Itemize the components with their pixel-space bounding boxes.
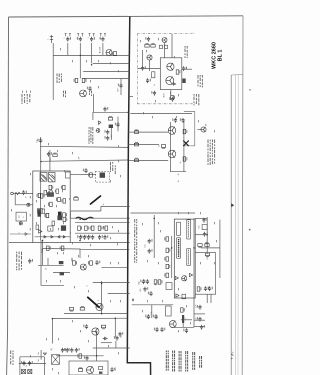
margin rule line 1 xyxy=(230,75,232,375)
resistor xyxy=(82,78,86,82)
svg-text:5: 5 xyxy=(87,285,89,286)
resistor CC2 xyxy=(88,261,92,265)
text block QQ legend xyxy=(166,351,202,372)
preamp block box xyxy=(33,171,70,243)
svg-text:5: 5 xyxy=(77,38,79,39)
capacitor top row xyxy=(66,37,71,42)
wire xyxy=(110,128,112,140)
transistor T6 xyxy=(168,150,176,158)
wire xyxy=(70,217,129,219)
wire xyxy=(51,319,53,344)
resistor W15 xyxy=(45,213,49,217)
capacitor WW 47u xyxy=(110,367,115,372)
connector circle 2 xyxy=(19,222,22,225)
wire xyxy=(93,62,130,64)
capacitor PP1 xyxy=(197,305,202,310)
capacitor 15n a xyxy=(154,327,159,332)
capacitor xyxy=(105,130,110,135)
wire diode row xyxy=(35,236,70,238)
wire stub xyxy=(128,96,133,98)
wire tuner v xyxy=(142,50,144,66)
svg-text:10u: 10u xyxy=(157,315,159,318)
handwritten pen stroke 1 xyxy=(91,196,101,204)
dark pair W19 xyxy=(61,225,66,230)
stray mark right xyxy=(249,89,251,91)
connector circle x xyxy=(27,203,30,206)
small rects + arrow K xyxy=(160,45,168,48)
resistor xyxy=(74,78,78,82)
wire stub in 1 xyxy=(128,131,140,133)
capacitor TT1 xyxy=(21,361,26,366)
IF transformer 1 dark xyxy=(40,173,47,182)
capacitor bus xyxy=(118,83,123,88)
svg-text:1b: 1b xyxy=(180,162,182,164)
resistor row1 xyxy=(78,226,82,230)
transistor tuner xyxy=(162,38,167,43)
speaker VV xyxy=(52,355,60,365)
box MM xyxy=(166,306,172,316)
resistor W13 xyxy=(48,202,52,206)
IC small rect bottom xyxy=(182,294,186,299)
svg-text:1k: 1k xyxy=(159,145,161,147)
wire det right xyxy=(183,120,185,172)
svg-text:10u: 10u xyxy=(151,311,153,314)
supply rail wire xyxy=(54,54,130,56)
transistor XX xyxy=(96,303,103,310)
wire xyxy=(131,212,196,214)
text block SS margin xyxy=(10,351,13,366)
resistor W4 dark xyxy=(38,209,41,217)
box KK xyxy=(166,283,172,290)
output box WW xyxy=(69,361,108,375)
dashed tuner boundary bottom xyxy=(137,103,196,105)
resistor column EE xyxy=(166,264,170,268)
capacitor row a xyxy=(61,348,66,353)
svg-text:1k: 1k xyxy=(50,158,52,160)
labels CC xyxy=(72,258,73,262)
wire xyxy=(41,284,64,286)
speaker TT1 xyxy=(21,369,25,373)
capacitor row d xyxy=(75,348,80,353)
diode W a xyxy=(44,236,46,238)
wire xyxy=(49,157,51,161)
dark cap Z5 xyxy=(60,272,64,275)
wire xyxy=(96,332,98,361)
svg-text:1b: 1b xyxy=(178,174,180,176)
wire xyxy=(140,144,159,146)
IC internal strip 1 xyxy=(177,222,181,235)
wire xyxy=(47,258,49,265)
wire AF line xyxy=(40,146,128,147)
wire xyxy=(49,150,51,171)
IC internal strip 3 dark xyxy=(177,238,181,258)
page border left lower xyxy=(7,330,8,375)
box right edge xyxy=(43,357,45,375)
capacitor KK1 xyxy=(140,279,145,284)
diode W d xyxy=(63,236,65,238)
wire xyxy=(140,131,168,133)
dark bar 4,7 xyxy=(182,315,184,323)
wire xyxy=(101,205,130,207)
stray marks bottom right xyxy=(231,354,233,356)
wire vertical xyxy=(40,188,42,240)
svg-text:10u: 10u xyxy=(147,315,149,318)
labels E xyxy=(89,91,92,96)
op-amp triangle xyxy=(39,230,42,233)
wire xyxy=(164,43,166,58)
small box top right xyxy=(66,172,71,178)
capacitor top row xyxy=(100,37,105,42)
wire xyxy=(101,302,103,314)
resistor stub in 1 xyxy=(134,130,138,134)
margin rule line 2 xyxy=(234,75,236,375)
ground UU xyxy=(43,353,46,355)
resistor XX1 xyxy=(69,308,73,312)
resistor AA xyxy=(74,196,78,200)
wire xyxy=(102,43,104,55)
capacitor Z3 xyxy=(28,259,33,264)
resistor stub in 3 xyxy=(134,158,138,162)
resistor xyxy=(151,43,155,47)
transformer small dark W9 xyxy=(47,192,54,197)
transistor right xyxy=(201,127,206,132)
wire stub in 2 xyxy=(128,144,140,146)
wire xyxy=(40,146,42,188)
wire xyxy=(206,217,208,254)
capacitor K5 xyxy=(182,66,187,71)
text block II pins xyxy=(134,219,137,263)
wire xyxy=(153,215,155,258)
text block N xyxy=(198,75,203,87)
wire xyxy=(101,281,103,302)
svg-text:10k: 10k xyxy=(207,256,209,259)
wire xyxy=(149,60,151,71)
wire xyxy=(75,232,130,234)
IF transformer 2 dark xyxy=(49,173,56,182)
dark pair W16 xyxy=(57,216,62,221)
wire vertical xyxy=(52,43,54,100)
transistor T2 xyxy=(80,90,87,97)
wire xyxy=(115,341,117,348)
wire xyxy=(79,43,81,78)
capacitor KK1c xyxy=(143,287,148,292)
capacitor GG2 xyxy=(203,232,208,237)
wire xyxy=(40,137,42,146)
text block U xyxy=(194,94,200,105)
capacitor LL2 xyxy=(153,314,158,319)
wire xyxy=(194,313,205,315)
wire xyxy=(181,319,192,321)
capacitor row c xyxy=(69,348,74,353)
resistor XX2 xyxy=(80,306,84,310)
wire xyxy=(101,342,112,344)
svg-text:47u: 47u xyxy=(140,288,142,291)
wire stub in 3 xyxy=(128,159,140,161)
capacitor ZZ xyxy=(83,324,88,329)
transistor T1 xyxy=(106,50,112,56)
wire xyxy=(132,304,173,306)
text E2 xyxy=(63,91,66,98)
wire xyxy=(171,236,173,278)
dark caps Z4 xyxy=(59,261,64,264)
wire xyxy=(42,240,44,248)
resistor W8 xyxy=(49,185,53,189)
resistor W2 xyxy=(48,191,52,195)
capacitor OO xyxy=(204,286,209,291)
resistor column EE xyxy=(164,237,168,241)
capacitor row2 xyxy=(77,235,82,240)
capacitor KK1b xyxy=(144,279,149,284)
capacitor K7 xyxy=(151,91,156,96)
capacitor row2 xyxy=(86,235,91,240)
resistor xyxy=(88,173,92,177)
svg-text:BC238: BC238 xyxy=(100,46,102,53)
wire xyxy=(197,129,201,131)
capacitor DD2 xyxy=(148,249,153,254)
wire xyxy=(83,71,130,73)
resistor W11 xyxy=(61,185,65,189)
resistor WW2 xyxy=(78,367,82,371)
capacitor 15n b xyxy=(160,327,165,332)
trim box GG xyxy=(202,225,207,230)
wire vertical xyxy=(40,240,42,285)
capacitor OO2 xyxy=(208,286,213,291)
wire xyxy=(171,326,194,328)
IC internal strip 2 xyxy=(187,220,191,239)
wire stub near bus xyxy=(117,117,119,132)
wire xyxy=(193,218,195,276)
transistor tuner 2 xyxy=(147,55,152,60)
resistor W10 xyxy=(40,194,44,198)
resistor ZZ xyxy=(101,325,105,329)
resistor row1 xyxy=(98,226,102,230)
svg-text:1k: 1k xyxy=(46,268,48,270)
svg-text:10k: 10k xyxy=(206,241,208,244)
handwritten pen stroke 2 xyxy=(88,297,99,307)
wire xyxy=(53,271,70,273)
resistor HH3 xyxy=(205,253,209,257)
wire xyxy=(182,68,192,70)
capacitor PP3 xyxy=(200,325,205,330)
page border left upper xyxy=(7,17,10,330)
capacitor det1 xyxy=(172,118,177,123)
connector pin ticks above top caps xyxy=(65,33,106,36)
wire xyxy=(14,194,16,205)
resistor W6 dark xyxy=(58,212,62,220)
wire xyxy=(151,305,153,318)
box OO xyxy=(195,253,215,295)
capacitor 10u xyxy=(118,332,123,337)
capacitor KK3 xyxy=(148,291,153,296)
resistor xyxy=(112,51,116,55)
svg-text:5: 5 xyxy=(99,38,101,39)
wire det bottom xyxy=(170,171,186,173)
wire xyxy=(194,319,205,321)
capacitor row2 xyxy=(90,235,95,240)
wire xyxy=(75,221,130,223)
capacitor V2 xyxy=(22,190,27,195)
wire xyxy=(206,294,208,303)
capacitor xyxy=(105,136,110,141)
capacitor row2 xyxy=(81,235,86,240)
IF IC box xyxy=(160,58,182,90)
svg-text:37 V: 37 V xyxy=(233,351,235,356)
wire detector spine xyxy=(169,122,171,172)
capacitor K2 xyxy=(141,66,146,71)
wire xyxy=(64,313,127,315)
resistor W12 xyxy=(61,199,65,203)
svg-text:2b: 2b xyxy=(178,180,180,182)
wire xyxy=(108,54,110,56)
input jack circle xyxy=(11,192,14,195)
capacitor right xyxy=(183,328,188,333)
capacitor ZZ2 xyxy=(103,337,108,340)
svg-text:5c: 5c xyxy=(103,203,105,205)
wire xyxy=(91,43,93,63)
capacitor LL1 xyxy=(145,314,150,319)
wire xyxy=(114,318,116,337)
capacitor PP2 xyxy=(197,317,202,322)
svg-text:1u: 1u xyxy=(154,84,156,86)
diode W c xyxy=(58,236,60,238)
dark rect pair F xyxy=(109,125,113,129)
wire xyxy=(120,78,122,95)
svg-text:5: 5 xyxy=(186,67,188,68)
capacitor H0 xyxy=(47,152,52,157)
diode D1 xyxy=(97,121,101,125)
svg-text:47u: 47u xyxy=(115,367,117,370)
resistor det r1 xyxy=(183,129,187,133)
resistor W3 xyxy=(56,197,60,201)
capacitor xyxy=(169,97,174,102)
text block C xyxy=(22,94,31,104)
IC internal strip 4 xyxy=(187,249,191,266)
text block automatik xyxy=(89,127,94,144)
half box right xyxy=(184,112,195,146)
dashed tuner boundary left xyxy=(136,34,138,104)
resistor NN xyxy=(181,308,185,312)
resistor W5 xyxy=(45,213,49,217)
transistor in IC 2 xyxy=(166,77,174,85)
wire xyxy=(79,249,81,258)
capacitor DD1 xyxy=(148,239,153,244)
triangle in IC xyxy=(173,83,175,85)
resistor row1 xyxy=(103,226,107,230)
capacitor top row xyxy=(77,37,82,42)
wire xyxy=(219,220,221,278)
svg-text:10n: 10n xyxy=(37,139,39,142)
svg-text:1u4: 1u4 xyxy=(19,216,21,219)
wire step v xyxy=(100,206,102,211)
resistor row1 xyxy=(85,226,89,230)
svg-text:1n: 1n xyxy=(26,365,28,367)
svg-text:4n7: 4n7 xyxy=(118,88,120,91)
wire xyxy=(38,264,64,266)
resistor R15 xyxy=(53,153,57,157)
wire step xyxy=(69,211,71,218)
resistor column EE xyxy=(164,257,168,261)
wire xyxy=(201,247,220,249)
wire xyxy=(83,77,130,79)
dark cap pair K6 xyxy=(182,79,185,84)
svg-text:b: b xyxy=(23,217,25,218)
stray dot right xyxy=(249,229,251,231)
resistor column EE xyxy=(164,273,168,277)
tick on boundary xyxy=(132,299,134,302)
wire xyxy=(70,241,130,243)
resistor W1 xyxy=(37,193,41,197)
page border right xyxy=(241,16,244,375)
resistor det mid xyxy=(161,145,165,149)
dashed tuner boundary top xyxy=(137,32,195,34)
wire xyxy=(67,43,69,55)
wire xyxy=(93,94,95,112)
capacitor C12 xyxy=(38,138,43,143)
diode on stub xyxy=(25,233,28,236)
capacitor xyxy=(103,107,108,112)
wire xyxy=(193,277,195,328)
resistor HH1 xyxy=(198,244,202,248)
text block T xyxy=(208,140,216,166)
wire xyxy=(52,317,127,319)
svg-text:TDA: TDA xyxy=(41,248,44,253)
page border top xyxy=(9,16,244,17)
capacitor row b xyxy=(64,348,69,353)
IC box TDA output stage xyxy=(174,219,195,298)
resistor stub in 2 xyxy=(134,142,138,146)
wire xyxy=(41,160,129,161)
capacitor top row xyxy=(90,37,95,42)
svg-text:5: 5 xyxy=(64,38,66,39)
resistor HH2 xyxy=(205,242,209,246)
wire xyxy=(130,112,192,114)
tiny label specks scattered xyxy=(22,38,217,374)
handwritten scribble xyxy=(76,217,94,220)
capacitor CC xyxy=(95,260,100,265)
margin rule line 3 xyxy=(237,75,239,375)
resistor OO1 xyxy=(197,287,201,291)
resistor WW1 xyxy=(77,354,81,358)
wire xyxy=(210,294,212,303)
rect K3 xyxy=(152,72,155,78)
wire long rail xyxy=(9,241,33,243)
wire xyxy=(71,210,101,212)
box left edge xyxy=(19,357,21,375)
resistor row1 xyxy=(90,226,94,230)
svg-text:17n: 17n xyxy=(196,304,198,307)
sparse left labels xyxy=(11,196,31,230)
resistor xyxy=(145,43,149,47)
wire xyxy=(41,249,43,266)
wire xyxy=(93,282,130,284)
pot box xyxy=(16,212,26,221)
capacitor K4 xyxy=(146,78,151,83)
marks in box right xyxy=(99,367,103,370)
svg-text:10u: 10u xyxy=(121,335,123,338)
antenna connector xyxy=(50,35,53,43)
capacitor GG1 xyxy=(202,218,207,223)
transistor CC xyxy=(80,264,86,270)
wire xyxy=(93,347,130,349)
wire xyxy=(101,266,127,268)
svg-text:47n: 47n xyxy=(199,225,201,228)
wire xyxy=(92,112,94,120)
resistor O xyxy=(171,95,175,99)
wire xyxy=(195,234,207,236)
transistor ZZ xyxy=(92,328,99,335)
wire into IC top xyxy=(171,34,173,58)
margin strip top edge xyxy=(231,74,242,76)
